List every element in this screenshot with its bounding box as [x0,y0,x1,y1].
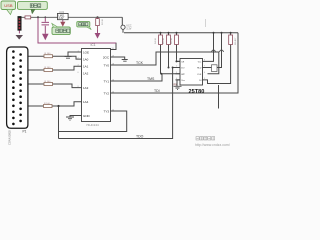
svg-text:R 100: R 100 [45,67,52,69]
svg-text:CONN DB25: CONN DB25 [8,130,12,145]
svg-text:R 100: R 100 [45,53,52,55]
svg-text:CLK: CLK [197,74,202,76]
svg-text:USB: USB [4,3,13,8]
svg-text:TY2: TY2 [103,91,109,95]
svg-text:1A4: 1A4 [83,100,89,104]
svg-text:U32: U32 [59,10,65,14]
svg-text:TDO: TDO [136,135,144,139]
svg-text:TDI: TDI [154,89,160,93]
svg-text:HLD: HLD [197,68,202,70]
svg-text:IC1: IC1 [91,43,96,47]
svg-text:1OE: 1OE [83,50,89,54]
svg-text:R8 4K7: R8 4K7 [235,37,237,45]
svg-text:R 100: R 100 [44,103,51,105]
svg-text:25T80: 25T80 [189,89,205,95]
svg-text:GND: GND [83,114,91,118]
svg-text:R6 1K: R6 1K [171,37,173,44]
svg-text:TY0: TY0 [103,63,109,67]
svg-text:TCK: TCK [136,61,144,65]
svg-text:3.3V: 3.3V [126,28,131,31]
svg-text:74HC244: 74HC244 [86,123,99,127]
svg-text:TY1: TY1 [103,79,109,83]
svg-text:R4 1K: R4 1K [155,37,157,44]
svg-text:1A2: 1A2 [83,72,89,76]
svg-text:R 100: R 100 [45,81,52,83]
svg-text:WP: WP [181,74,185,76]
svg-text:DI: DI [199,80,202,82]
svg-text:1A0: 1A0 [83,57,89,61]
svg-text:2OC: 2OC [103,55,110,59]
svg-text:DO: DO [181,68,185,70]
svg-text:TMS: TMS [147,77,155,81]
svg-text:1A1: 1A1 [83,65,89,69]
svg-text:CE: CE [181,61,185,63]
svg-text:P1: P1 [23,130,27,134]
svg-text:http://www.cndzz.com/: http://www.cndzz.com/ [195,143,230,147]
svg-text:R5 1K: R5 1K [163,37,165,44]
svg-text:3.3V: 3.3V [58,17,63,20]
svg-text:TY3: TY3 [103,109,109,113]
svg-text:R2 1K: R2 1K [102,18,104,25]
svg-text:1A3: 1A3 [83,86,89,90]
